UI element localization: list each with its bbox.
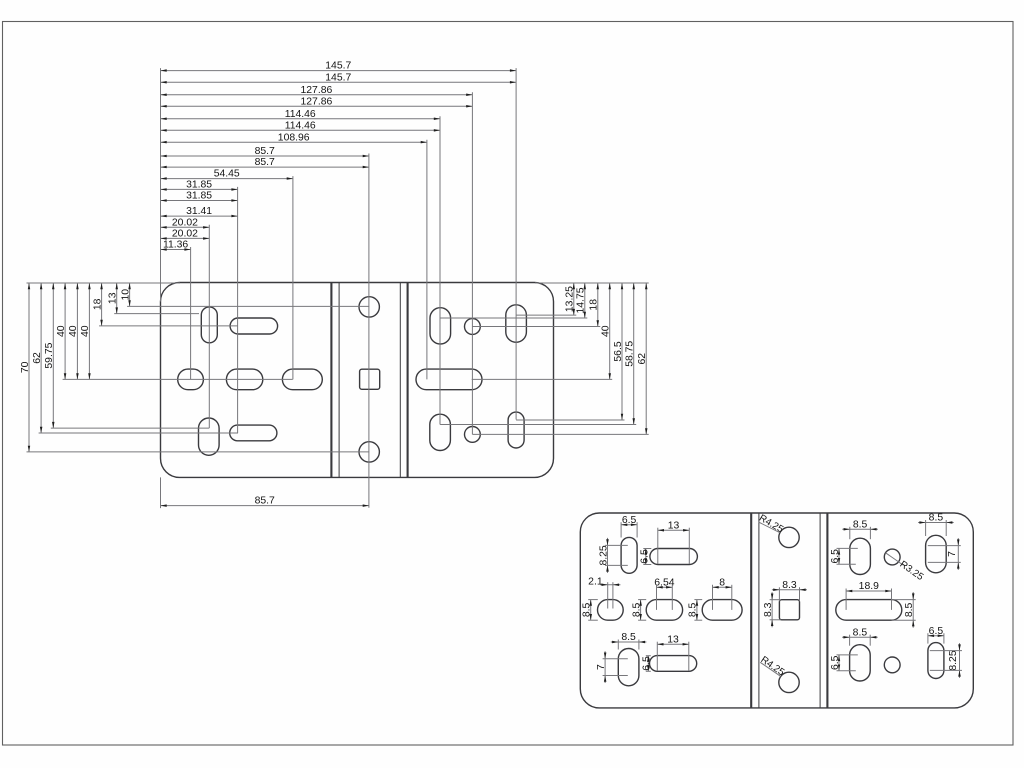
svg-text:13: 13 bbox=[108, 292, 119, 304]
extension line detail slot3 ext b bbox=[694, 619, 702, 621]
extension line detail tl slot ext r bbox=[636, 522, 638, 537]
dimension top 20.02 bbox=[161, 229, 210, 240]
svg-text:31.41: 31.41 bbox=[186, 206, 212, 217]
extension line x 472.4 bbox=[471, 92, 473, 434]
extension line detail slot3 ext r bbox=[731, 585, 733, 610]
dimension bottom 85.7 bbox=[161, 496, 369, 507]
extension line y 313.6 bbox=[114, 313, 199, 315]
dimension detail 6.5 br slot bbox=[928, 626, 944, 637]
extension line detail slot2 ext b bbox=[638, 619, 646, 621]
svg-text:40: 40 bbox=[80, 325, 91, 337]
extension line detail tr slot ext b bbox=[928, 561, 961, 563]
leader R4.25 bottom circle bbox=[759, 654, 787, 678]
extension line detail bottom oval ext l bbox=[849, 635, 851, 646]
extension line detail slot2 ext l bbox=[656, 585, 658, 610]
extension line detail br slot ext l bbox=[927, 633, 929, 643]
dimension right 56.5 bbox=[613, 283, 624, 420]
svg-text:62: 62 bbox=[32, 352, 43, 364]
dimension left 59.75 bbox=[44, 283, 55, 428]
extension line top edge right bbox=[535, 282, 649, 284]
svg-text:54.45: 54.45 bbox=[214, 169, 240, 180]
extension line plate left edge down bbox=[160, 477, 162, 508]
svg-text:8.5: 8.5 bbox=[582, 602, 593, 617]
svg-text:8.3: 8.3 bbox=[763, 602, 774, 617]
dimension right 18 bbox=[589, 283, 600, 327]
dimension detail 6.5 tl hslot height bbox=[640, 549, 651, 565]
extension line detail bl vslot ext b bbox=[603, 675, 628, 677]
dimension top 145.7 bbox=[161, 61, 517, 72]
dimension right 58.75 bbox=[625, 283, 636, 425]
dimension detail 8.5 bottom oval bbox=[842, 627, 878, 638]
extension line detail tl hslot ext r bbox=[688, 528, 690, 564]
dimension top 114.46 bbox=[161, 109, 441, 120]
dimension detail 8.5 long slot bbox=[904, 592, 915, 628]
leader R3.25 small circle bbox=[886, 553, 926, 583]
dimension top 85.7 bbox=[161, 157, 369, 168]
dimension top 127.86 bbox=[161, 96, 473, 107]
svg-text:127.86: 127.86 bbox=[301, 85, 333, 96]
dimension top 20.02 bbox=[161, 217, 210, 228]
dimension detail 8.3 square height bbox=[763, 592, 774, 627]
extension line detail top oval ext r bbox=[869, 527, 871, 539]
extension line detail long slot ext r bbox=[891, 589, 893, 610]
svg-text:6.5: 6.5 bbox=[622, 515, 637, 526]
svg-text:85.7: 85.7 bbox=[255, 157, 275, 168]
svg-text:8.5: 8.5 bbox=[904, 602, 915, 617]
dimension left 13 bbox=[108, 283, 119, 314]
dimension detail 8.5 mid slot2 bbox=[631, 600, 642, 621]
extension line y 434.4 right bbox=[472, 433, 648, 435]
svg-text:10: 10 bbox=[120, 289, 131, 301]
svg-text:8: 8 bbox=[719, 577, 725, 588]
dimension top 11.36 bbox=[161, 240, 191, 251]
dimension left 70 bbox=[20, 283, 31, 452]
svg-text:56.5: 56.5 bbox=[613, 341, 624, 361]
extension line detail bl hslot ext l bbox=[656, 642, 658, 671]
extension line detail br slot ext b bbox=[930, 669, 962, 671]
dimension detail 8.5 top oval bbox=[842, 519, 878, 530]
extension line plate left edge up bbox=[160, 68, 162, 301]
svg-text:108.96: 108.96 bbox=[278, 132, 310, 143]
extension line detail long slot ext l bbox=[845, 589, 847, 610]
extension line x 190.6 bbox=[190, 247, 192, 379]
extension line x 368.9 centerline bbox=[368, 154, 370, 508]
dimension detail 13 bl hslot bbox=[657, 634, 689, 645]
extension line detail bl hslot ext r bbox=[688, 642, 690, 671]
svg-text:6.5: 6.5 bbox=[642, 656, 653, 671]
extension line detail tl hslot ext l bbox=[657, 528, 659, 564]
dimension left 18 bbox=[92, 283, 103, 326]
dimension top 54.45 bbox=[161, 169, 293, 180]
dimension top 31.41 bbox=[161, 206, 238, 217]
dimension left 40 bbox=[80, 283, 91, 379]
extension line detail tl slot ext l bbox=[620, 522, 622, 537]
svg-text:13.25: 13.25 bbox=[565, 286, 576, 312]
svg-text:114.46: 114.46 bbox=[285, 120, 316, 131]
extension line detail tl slot ext b bbox=[605, 564, 628, 566]
extension line detail top oval ext t bbox=[837, 547, 858, 549]
extension line detail top oval ext l bbox=[849, 527, 851, 539]
extension line y 306.4 bbox=[127, 305, 369, 307]
svg-text:7: 7 bbox=[947, 551, 958, 557]
extension line detail bl vslot ext r bbox=[638, 640, 640, 650]
extension line detail tl hslot ext b bbox=[643, 564, 651, 566]
extension line detail square ext t bbox=[770, 599, 781, 601]
svg-text:2.1: 2.1 bbox=[588, 577, 603, 588]
svg-text:13: 13 bbox=[667, 634, 679, 645]
extension line detail slot3 ext l bbox=[712, 585, 714, 610]
dimension detail 6.5 bl hslot height bbox=[642, 656, 653, 672]
svg-text:145.7: 145.7 bbox=[325, 72, 351, 83]
extension line y 325.9 bbox=[99, 325, 238, 327]
main view plate bbox=[161, 283, 554, 478]
dimension top 85.7 bbox=[161, 146, 369, 157]
extension line detail slot1 ext r bbox=[612, 582, 614, 608]
dimension detail 6.5 bottom oval bbox=[830, 655, 841, 671]
svg-text:6.5: 6.5 bbox=[640, 549, 651, 564]
dimension detail 6.5 top oval bbox=[830, 548, 841, 564]
dimension detail 7 bl vslot bbox=[596, 651, 607, 683]
svg-text:6.5: 6.5 bbox=[830, 655, 841, 670]
extension line y 315.1 right bbox=[516, 314, 576, 316]
dimension detail 18.9 long slot bbox=[846, 581, 891, 592]
dimension detail 6.54 mid slot2 bbox=[654, 577, 674, 588]
extension line detail long slot ext t bbox=[892, 599, 916, 601]
dimension detail 8.5 mid slot1 bbox=[582, 600, 593, 621]
svg-text:18: 18 bbox=[92, 298, 103, 310]
extension line x 209.3 bbox=[208, 225, 210, 428]
dimension detail 7 tr slot bbox=[947, 538, 960, 570]
extension line detail br slot ext r bbox=[943, 633, 945, 643]
svg-text:8.3: 8.3 bbox=[782, 580, 797, 591]
extension line detail slot1 ext l bbox=[607, 582, 609, 608]
extension line detail tl hslot ext t bbox=[643, 548, 651, 550]
svg-text:70: 70 bbox=[20, 361, 31, 373]
extension line x 440.0 bbox=[439, 116, 441, 424]
svg-text:6.54: 6.54 bbox=[654, 577, 674, 588]
extension line y 318.0 right bbox=[440, 317, 587, 319]
svg-text:31.85: 31.85 bbox=[186, 180, 212, 191]
extension line detail bl vslot ext t bbox=[603, 658, 628, 660]
dimension right 14.75 bbox=[576, 283, 587, 318]
extension line detail bottom oval ext b bbox=[837, 670, 856, 672]
svg-text:7: 7 bbox=[596, 664, 607, 670]
dimension detail 8.5 mid slot3 bbox=[688, 600, 699, 621]
extension line x 292.9 bbox=[292, 176, 294, 379]
svg-text:127.86: 127.86 bbox=[301, 96, 333, 107]
extension line y 433.0 bbox=[39, 432, 238, 434]
dimension right 40 bbox=[601, 283, 612, 379]
detail view plate bbox=[580, 513, 973, 708]
svg-text:6.5: 6.5 bbox=[830, 549, 841, 564]
extension line detail long slot ext b bbox=[892, 619, 916, 621]
svg-text:18.9: 18.9 bbox=[859, 581, 879, 592]
svg-text:8.25: 8.25 bbox=[948, 650, 959, 670]
extension line y 379.4 left bbox=[63, 378, 293, 380]
dimension top 31.85 bbox=[161, 180, 238, 191]
svg-text:14.75: 14.75 bbox=[576, 287, 587, 313]
extension line detail square ext l bbox=[778, 587, 780, 601]
dimension detail 8.25 top-left slot bbox=[598, 538, 609, 573]
extension line y 428.1 bbox=[51, 427, 209, 429]
svg-text:11.36: 11.36 bbox=[163, 240, 188, 251]
dimension detail 8.5 bl vslot bbox=[611, 632, 647, 643]
svg-text:8.5: 8.5 bbox=[929, 513, 944, 524]
extension line detail bottom oval ext r bbox=[869, 635, 871, 646]
leader R4.25 top circle bbox=[757, 513, 786, 536]
extension line x 516.1 bbox=[515, 68, 517, 419]
extension line detail top oval ext b bbox=[837, 563, 856, 565]
extension line detail tr slot ext l bbox=[925, 520, 927, 536]
extension line detail square ext r bbox=[799, 587, 801, 601]
extension line x 426.9 bbox=[426, 140, 428, 380]
dimension detail 8.25 br slot bbox=[948, 643, 961, 678]
svg-text:85.7: 85.7 bbox=[255, 496, 275, 507]
svg-text:8.5: 8.5 bbox=[853, 627, 868, 638]
extension line y 326.5 right bbox=[472, 326, 600, 328]
dimension left 40 bbox=[56, 283, 67, 379]
extension line y 424.5 right bbox=[440, 424, 636, 426]
extension line detail tl slot ext t bbox=[605, 544, 628, 546]
extension line top edge left bbox=[27, 282, 181, 284]
svg-text:40: 40 bbox=[601, 325, 612, 337]
dimension detail 13 top-left hslot bbox=[658, 520, 690, 531]
svg-text:114.46: 114.46 bbox=[285, 109, 316, 120]
dimension top 114.46 bbox=[161, 120, 441, 131]
dimension left 40 bbox=[68, 283, 79, 379]
dimension right 13.25 bbox=[565, 283, 576, 315]
svg-text:13: 13 bbox=[668, 520, 680, 531]
dimension left 62 bbox=[32, 283, 43, 433]
dimension detail 2.1 mid slot1 bbox=[588, 577, 620, 588]
extension line detail slot1 ext t bbox=[588, 599, 598, 601]
svg-text:58.75: 58.75 bbox=[625, 341, 636, 367]
dimension detail 8 mid slot3 bbox=[713, 577, 732, 588]
extension line detail tr slot ext r bbox=[945, 520, 947, 536]
svg-text:8.5: 8.5 bbox=[688, 602, 699, 617]
dimension detail 8.5 tr slot bbox=[918, 513, 954, 524]
svg-text:8.5: 8.5 bbox=[631, 602, 642, 617]
extension line y 451.9 bbox=[27, 451, 370, 453]
extension line detail slot2 ext t bbox=[638, 599, 646, 601]
dimension top 31.85 bbox=[161, 191, 238, 202]
extension line detail bl hslot ext b2 bbox=[646, 670, 651, 672]
extension line detail slot1 ext b bbox=[588, 619, 598, 621]
extension line detail slot2 ext r bbox=[671, 585, 673, 610]
extension line detail square ext b bbox=[770, 619, 781, 621]
svg-text:31.85: 31.85 bbox=[186, 191, 212, 202]
dimension detail 6.5 top-left slot width bbox=[621, 515, 637, 526]
svg-text:8.5: 8.5 bbox=[621, 632, 636, 643]
dimension top 108.96 bbox=[161, 132, 427, 143]
svg-text:20.02: 20.02 bbox=[172, 229, 198, 240]
extension line detail slot3 ext t bbox=[694, 599, 702, 601]
dimension left 10 bbox=[120, 283, 131, 306]
svg-text:40: 40 bbox=[68, 325, 79, 337]
extension line x 237.6 bbox=[237, 187, 239, 433]
extension line detail bottom oval ext t bbox=[837, 654, 858, 656]
dimension top 127.86 bbox=[161, 85, 473, 96]
svg-text:85.7: 85.7 bbox=[255, 146, 275, 157]
svg-text:8.25: 8.25 bbox=[598, 545, 609, 565]
extension line detail br slot ext t bbox=[930, 650, 962, 652]
svg-text:6.5: 6.5 bbox=[929, 626, 944, 637]
extension line detail bl vslot ext l bbox=[617, 640, 619, 650]
svg-text:40: 40 bbox=[56, 325, 67, 337]
svg-text:18: 18 bbox=[589, 299, 600, 311]
dimension top 145.7 bbox=[161, 72, 517, 83]
dimension detail 8.3 square width bbox=[772, 580, 807, 591]
svg-text:145.7: 145.7 bbox=[325, 61, 351, 72]
svg-text:62: 62 bbox=[637, 353, 648, 365]
extension line detail bl hslot ext t2 bbox=[646, 655, 651, 657]
svg-text:59.75: 59.75 bbox=[44, 342, 55, 368]
svg-text:20.02: 20.02 bbox=[172, 217, 198, 228]
extension line detail tr slot ext t bbox=[928, 545, 961, 547]
dimension right 62 bbox=[637, 283, 648, 434]
extension line y 420.0 right bbox=[516, 419, 624, 421]
svg-text:8.5: 8.5 bbox=[853, 519, 868, 530]
extension line y 379.4 right bbox=[472, 378, 613, 380]
